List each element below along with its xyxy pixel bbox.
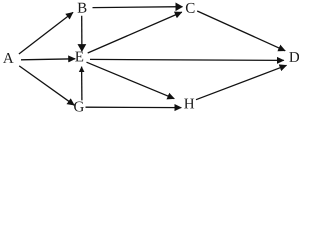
- node G: [74, 101, 84, 111]
- wire E to D: [90, 59, 284, 60]
- wire B to C: [93, 6, 183, 9]
- wire A to G: [19, 66, 74, 105]
- wire E to H: [87, 62, 175, 98]
- node A: [3, 53, 14, 63]
- wire G to H: [86, 106, 182, 108]
- node B: [78, 3, 87, 13]
- wire C to D: [197, 11, 285, 51]
- wire G to E: [81, 67, 83, 101]
- wire E to C: [88, 12, 182, 53]
- wire A to E: [21, 59, 75, 60]
- wire A to B: [19, 12, 73, 54]
- wire H to D: [196, 65, 287, 99]
- node E: [75, 52, 83, 62]
- node H: [184, 99, 194, 109]
- wire B to E: [81, 16, 83, 51]
- node C: [186, 3, 195, 13]
- node D: [289, 52, 299, 62]
